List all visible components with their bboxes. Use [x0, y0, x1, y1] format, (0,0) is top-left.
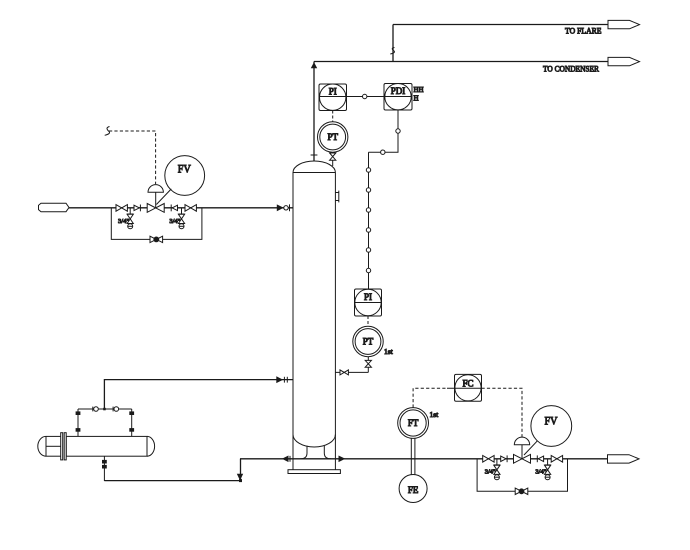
gate valve left-1 [116, 205, 127, 212]
wire bypass loop [111, 208, 202, 240]
reducer right [171, 205, 177, 212]
wire flare riser [392, 25, 394, 62]
instrument valve below PT [365, 357, 371, 373]
transmitter PT (lower) [353, 326, 383, 356]
svg-text:PI: PI [364, 292, 372, 302]
instrument FC [447, 374, 482, 401]
svg-text:H: H [414, 95, 419, 103]
signal line PI to PDI [319, 96, 412, 98]
reducer left-2 [501, 455, 507, 462]
reboiler E-1 [38, 433, 155, 460]
wire column overhead [313, 62, 315, 162]
alarm labels HH H [414, 86, 424, 103]
svg-text:FC: FC [462, 378, 473, 388]
instrument PI (top) [319, 84, 347, 111]
instrument valve below PT [330, 152, 336, 166]
leader line FV2 to valve [524, 441, 537, 455]
wire pressure tap to column [335, 371, 368, 373]
flange set at feed nozzle [284, 204, 290, 211]
hose connector right [113, 407, 119, 412]
junction dot [239, 479, 242, 482]
svg-text:TO CONDENSER: TO CONDENSER [543, 64, 599, 74]
svg-text:PDI: PDI [391, 86, 406, 96]
connection circle [381, 150, 385, 154]
off-page connector bottoms out [608, 455, 640, 463]
flow arrow down [238, 474, 243, 479]
svg-text:3/4": 3/4" [535, 469, 546, 476]
svg-text:3/4": 3/4" [118, 218, 129, 225]
wire reboiler bottoms [104, 459, 240, 481]
svg-text:FV: FV [178, 164, 192, 176]
signal line FC to FV dashed [482, 388, 523, 437]
off-page connector TO FLARE [565, 20, 640, 35]
hose connector left [93, 407, 98, 412]
svg-text:3/4": 3/4" [485, 469, 496, 476]
svg-text:HH: HH [414, 86, 424, 94]
balloon FV (top) [165, 156, 205, 196]
column C-1 [288, 161, 340, 473]
orifice tap lines FE [411, 439, 415, 475]
reboiler top piping [76, 409, 134, 436]
wire column bottoms line [240, 458, 608, 460]
off-page connector feed [39, 203, 70, 212]
svg-text:PI: PI [329, 87, 337, 97]
flow arrow right of column [339, 456, 344, 461]
element FE [399, 475, 427, 503]
svg-text:3/4": 3/4" [169, 218, 180, 225]
svg-text:FV: FV [545, 415, 559, 427]
signal line PI to PT dashed [332, 111, 334, 123]
flow arrow on feed [277, 205, 282, 210]
control valve FV (bottom) [514, 437, 531, 463]
balloon FV (bottom) [531, 406, 572, 447]
svg-text:FE: FE [408, 485, 419, 495]
svg-text:1st: 1st [430, 410, 440, 419]
svg-text:1st: 1st [384, 347, 394, 356]
svg-text:PT: PT [363, 337, 374, 347]
flow arrow vapor return [277, 377, 282, 382]
svg-text:TO FLARE: TO FLARE [565, 26, 602, 36]
wire flare header [393, 24, 608, 26]
globe valve on bypass 2 [515, 488, 528, 494]
signal line dashed to FV actuator [109, 131, 156, 184]
gate valve right-1 [185, 205, 196, 212]
svg-text:FT: FT [408, 418, 419, 428]
transmitter PT (top) [318, 122, 348, 152]
reducer left [134, 205, 140, 212]
drain valve 3/4 right-2 [535, 459, 550, 480]
drain valve 3/4 right [169, 208, 184, 229]
line break symbol [390, 48, 394, 55]
valve on pressure tap [340, 370, 348, 375]
instrument PDI [384, 84, 412, 111]
signal line PI to PT dashed [367, 316, 369, 326]
wire impulse line with connectors [366, 152, 370, 289]
manway nozzle right [335, 191, 338, 203]
reducer right-2 [537, 455, 543, 462]
svg-text:PT: PT [327, 132, 338, 142]
wire feed line [69, 207, 293, 209]
wire condenser header [314, 61, 608, 63]
drain valve 3/4 left [118, 208, 133, 229]
connection circle [396, 129, 400, 133]
wire bypass loop 2 [477, 459, 567, 492]
flow arrow + flange left of column [283, 456, 290, 462]
off-page connector TO CONDENSER [543, 57, 640, 73]
signal end squiggle [105, 127, 110, 136]
wire vapor return riser [104, 380, 293, 409]
globe valve on bypass [150, 236, 163, 242]
wire PDI impulse drop [369, 110, 399, 152]
flange ticks vapor return [284, 377, 287, 383]
reboiler bottom outlet [103, 456, 107, 481]
flange tick on overhead nozzle [311, 154, 318, 156]
instrument PI (lower) [355, 289, 382, 316]
flow arrow up into condenser line [312, 63, 317, 68]
gate valve left-2 [483, 456, 494, 463]
drain valve 3/4 left-2 [485, 459, 500, 480]
control valve FV (top) [147, 185, 164, 213]
junction dot riser tee [103, 408, 106, 411]
transmitter FT [398, 408, 429, 439]
signal line FT to FC dashed [413, 388, 447, 407]
connection circle [363, 94, 367, 98]
leader line FV to valve [156, 189, 171, 205]
gate valve right-2 [551, 456, 562, 463]
